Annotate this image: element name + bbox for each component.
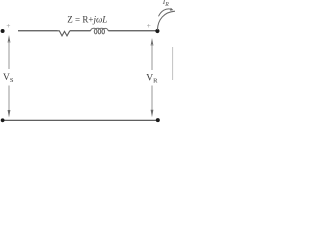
node: bottom-right terminal — [156, 118, 160, 122]
voltage arrow VS: upper shaft — [8, 41, 10, 69]
voltage arrow VR: up arrowhead — [151, 38, 154, 46]
voltage arrow VS: down arrowhead — [8, 110, 11, 118]
node: receiving-end terminal (top-right) — [155, 29, 159, 33]
wire: top-left segment — [18, 30, 58, 32]
resistor R (zigzag) — [58, 31, 70, 36]
current arrow IR (curved) — [159, 9, 172, 16]
voltage arrow VR: upper shaft — [151, 44, 153, 70]
svg-text:+: + — [147, 21, 151, 30]
voltage arrow VS: lower shaft — [8, 86, 10, 112]
voltage arrow VR: down arrowhead — [151, 110, 154, 118]
svg-text:VS: VS — [3, 73, 14, 84]
wire: between resistor and inductor — [70, 30, 91, 32]
wire: top-right segment — [108, 30, 156, 32]
svg-text:VR: VR — [146, 74, 158, 85]
wire: curved riser leaving top-right node — [157, 11, 175, 30]
voltage arrow VR: lower shaft — [151, 86, 153, 111]
node: bottom-left terminal — [1, 118, 5, 122]
node: source positive terminal (top-left) — [1, 29, 5, 33]
load edge line (cropped at right) — [172, 47, 174, 80]
svg-text:Z = R+jωL: Z = R+jωL — [67, 15, 107, 25]
voltage arrow VS: up arrowhead — [8, 35, 11, 43]
svg-text:IR: IR — [162, 0, 170, 8]
svg-text:+: + — [6, 21, 10, 30]
inductor L (coil loops) — [91, 28, 109, 34]
wire: bottom return — [3, 119, 159, 121]
